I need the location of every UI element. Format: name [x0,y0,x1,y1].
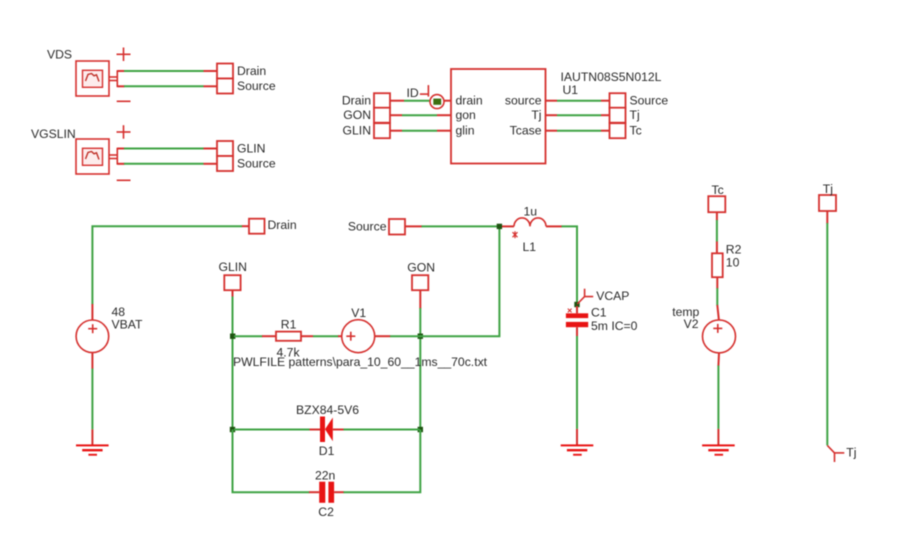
svg-text:5m IC=0: 5m IC=0 [591,319,638,333]
source V2 [703,320,736,353]
svg-text:PWLFILE patterns\para_10_60__1: PWLFILE patterns\para_10_60__1ms__70c.tx… [233,355,488,369]
terminal Source [217,79,233,94]
phase dot L1 [513,231,518,238]
probe VDS [76,61,124,96]
svg-text:VCAP: VCAP [596,289,629,303]
wire [562,226,578,303]
wire [233,430,320,493]
svg-text:glin: glin [456,124,475,138]
svg-text:V1: V1 [351,306,366,320]
terminal Drain (main) [249,219,265,234]
svg-text:Source: Source [348,219,387,233]
node junction [497,224,502,229]
svg-text:drain: drain [456,94,483,108]
terminal GLIN [217,141,233,156]
node junction [230,334,235,339]
node junction [418,334,423,339]
svg-text:V2: V2 [684,317,699,331]
probe VGSLIN [76,139,124,174]
terminal Drain (U1 left) [374,93,390,108]
svg-text:GLIN: GLIN [343,124,371,138]
wire [576,336,578,429]
terminal Source (U1 right) [610,93,626,108]
plus mark [117,48,131,62]
minus mark [117,100,131,102]
source V1 VBAT [76,320,109,353]
wire [405,225,499,227]
svg-text:C2: C2 [318,505,334,519]
current probe ID [420,85,444,109]
wire [91,353,93,430]
svg-text:Source: Source [630,94,669,108]
svg-text:Drain: Drain [268,218,297,232]
node junction [574,302,579,307]
svg-text:22n: 22n [315,468,335,482]
capacitor C2 [319,482,334,503]
subcircuit U1 [451,69,546,164]
ground (VBAT) [76,429,109,455]
wire [234,335,276,337]
wire [717,277,719,320]
wire [117,148,217,150]
diode D1 zener [320,417,333,443]
svg-text:GON: GON [407,261,435,275]
source V1 [342,320,375,353]
ic mark C1 [568,309,572,313]
wire [92,226,249,320]
svg-text:R1: R1 [281,317,297,331]
svg-text:L1: L1 [523,240,537,254]
resistor R1 [276,332,301,341]
wire [546,114,610,116]
resistor R2 [712,253,723,277]
wire [826,211,828,445]
svg-text:C1: C1 [591,305,607,319]
terminal Source (main) [389,219,405,235]
wire [717,353,720,429]
wire [716,212,718,253]
svg-text:GLIN: GLIN [237,142,265,156]
terminal GON (mid) [412,275,428,290]
terminal Tc [708,196,725,212]
wire [117,85,217,87]
terminal Tc (U1 right) [610,123,626,138]
svg-text:IAUTN08S5N012L: IAUTN08S5N012L [561,70,662,84]
terminal GLIN (mid) [224,275,240,290]
node junction (D1 right) [418,427,423,432]
svg-text:GON: GON [343,108,371,122]
terminal Source [217,156,233,171]
svg-text:gon: gon [456,108,476,122]
svg-text:Tj: Tj [531,108,541,122]
wire [546,130,610,132]
svg-text:D1: D1 [319,444,335,458]
terminal Tj (U1 right) [610,108,626,123]
node junction (D1 left) [230,427,235,432]
wire [375,335,421,337]
svg-text:1u: 1u [524,205,538,219]
ground (C1) [561,429,594,456]
net marker Tj [827,445,844,462]
wire [232,290,234,429]
svg-text:BZX84-5V6: BZX84-5V6 [296,403,359,417]
svg-text:VDS: VDS [47,48,72,62]
terminal GON (U1 left) [374,108,390,123]
wire [117,70,217,72]
wire [301,335,342,337]
svg-text:VGSLIN: VGSLIN [31,127,76,141]
svg-text:source: source [505,94,542,108]
svg-text:Tc: Tc [630,124,642,138]
capacitor C1 [566,306,588,337]
svg-text:R2: R2 [726,242,742,256]
minus mark [117,179,131,181]
wire [334,430,420,493]
wire [419,290,421,429]
inductor L1 [502,218,562,227]
svg-text:Drain: Drain [342,94,371,108]
svg-text:Source: Source [237,157,276,171]
svg-text:GLIN: GLIN [219,260,247,274]
wire [390,100,451,102]
wire [234,429,320,431]
svg-text:Drain: Drain [237,64,266,78]
terminal Drain [217,64,233,79]
svg-text:ID: ID [407,86,419,100]
wire [546,100,610,102]
svg-text:10: 10 [726,256,740,270]
svg-text:U1: U1 [563,83,579,97]
wire [420,226,499,336]
ground (V2) [702,429,735,456]
svg-text:Tj: Tj [630,108,640,122]
svg-text:VBAT: VBAT [112,317,143,331]
svg-text:Tj: Tj [846,446,856,460]
wire [117,163,217,165]
wire [333,429,420,431]
terminal Tj [819,195,836,211]
svg-text:Tj: Tj [823,182,833,196]
terminal GLIN (U1 left) [374,123,390,138]
wire [390,114,451,116]
svg-text:Source: Source [237,79,276,93]
svg-text:Tc: Tc [712,183,724,197]
svg-text:Tcase: Tcase [510,124,542,138]
wire [390,130,451,132]
plus mark [117,125,131,139]
net marker VCAP [577,289,593,304]
